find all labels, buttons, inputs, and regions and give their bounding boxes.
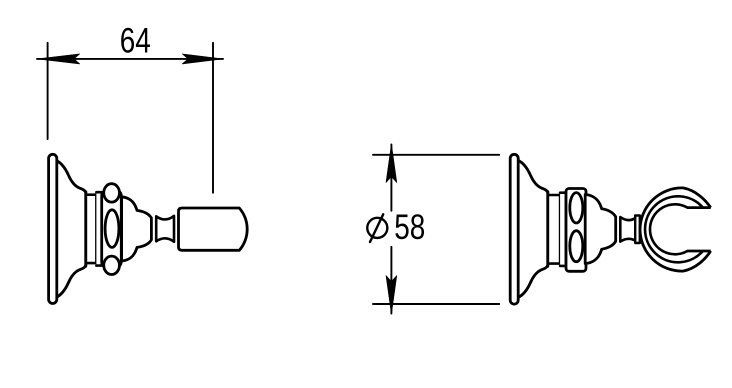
knuckle block	[566, 189, 586, 272]
wall plate	[510, 154, 518, 304]
dimension D58: top extension line	[373, 154, 499, 156]
dimension D58: dimension line upper segment	[390, 145, 392, 211]
bell end face edge	[546, 192, 549, 267]
band 1	[86, 195, 97, 263]
C ring outer	[640, 188, 711, 271]
svg-text:64: 64	[120, 20, 151, 60]
dimension 64: arrowhead right	[182, 54, 223, 64]
dimension 64: extension line right	[212, 43, 214, 193]
dimension 64: dimension line	[37, 58, 223, 60]
knuckle top ball	[104, 184, 120, 202]
dimension D58: diameter symbol	[367, 214, 387, 242]
dimension 64: extension line left	[47, 43, 49, 139]
band 1	[548, 195, 560, 264]
bell flange	[56, 160, 86, 297]
band 2	[96, 192, 101, 265]
C ring inner	[650, 204, 687, 254]
knuckle middle ellipse	[105, 210, 119, 248]
dome	[122, 197, 152, 261]
C ring lower lip	[687, 250, 711, 253]
dimension D58: arrowhead down	[386, 276, 397, 315]
band 2	[560, 193, 566, 266]
knuckle capsule	[102, 190, 122, 268]
dimension D58: dimension line lower segment	[390, 247, 392, 314]
dome	[585, 195, 616, 264]
bell flange	[518, 160, 548, 297]
neck spool	[620, 217, 637, 242]
knuckle bottom oval	[570, 231, 583, 262]
collar	[635, 216, 640, 244]
dimension D58: arrowhead up	[386, 144, 397, 183]
peg	[179, 208, 248, 250]
C ring middle	[645, 196, 703, 262]
wall plate	[49, 154, 57, 303]
knuckle top oval	[570, 193, 583, 223]
svg-text:58: 58	[394, 207, 425, 247]
dimension D58: bottom extension line	[373, 303, 499, 305]
dimension 64: arrowhead left	[37, 54, 80, 64]
knuckle bottom ball	[104, 256, 120, 274]
C ring upper lip	[687, 206, 711, 209]
neck spool	[156, 216, 174, 242]
bell end face edge	[84, 192, 87, 267]
